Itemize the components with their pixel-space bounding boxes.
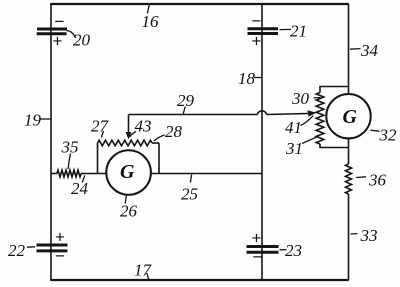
leader 28 (154, 135, 165, 141)
wire bottom bus 17 (50, 279, 349, 281)
wire right branch bottom 33 (348, 194, 350, 280)
wire middle branch 18 (261, 4, 263, 280)
wire pot right flat (152, 142, 159, 144)
arrowhead wiper 43 (126, 132, 132, 140)
wire 29 hump over middle branch (258, 111, 267, 115)
leader 33 (351, 233, 358, 235)
svg-text:+: + (53, 32, 63, 51)
svg-text:35: 35 (61, 138, 79, 157)
leader 31 (302, 136, 319, 143)
svg-text:−: − (252, 12, 262, 31)
svg-text:19: 19 (24, 111, 42, 130)
leader 29 (183, 107, 185, 115)
svg-text:24: 24 (71, 179, 89, 198)
svg-text:G: G (120, 161, 135, 183)
wire bridge left arm (51, 173, 57, 175)
leader 16 (147, 4, 149, 14)
resistor R24 (57, 170, 81, 177)
resistor R36 (346, 164, 352, 194)
arrowhead 41 (308, 110, 317, 116)
svg-text:+: + (55, 228, 65, 247)
svg-text:30: 30 (291, 89, 310, 108)
leader 36 (356, 176, 366, 179)
leader 41 (301, 116, 314, 126)
svg-text:+: + (252, 32, 262, 51)
svg-text:−: − (55, 247, 65, 266)
svg-text:26: 26 (120, 202, 138, 221)
leader 26 (125, 196, 126, 204)
svg-text:31: 31 (285, 139, 303, 158)
svg-text:41: 41 (285, 118, 302, 137)
svg-text:16: 16 (142, 12, 160, 31)
svg-text:27: 27 (91, 117, 110, 136)
leader 21 (280, 28, 292, 30)
svg-text:23: 23 (285, 241, 302, 260)
wire right branch top 34 (348, 4, 350, 95)
svg-text:22: 22 (8, 241, 26, 260)
svg-text:−: − (55, 12, 65, 31)
leader 43 (130, 132, 136, 137)
svg-text:34: 34 (360, 41, 379, 60)
leader 35 (68, 154, 70, 170)
leader 22 (27, 246, 35, 248)
svg-text:17: 17 (134, 261, 153, 280)
galvanometer G32 (326, 94, 370, 138)
svg-text:36: 36 (368, 171, 387, 190)
leader 19 (41, 118, 51, 120)
leader 17 (147, 273, 149, 280)
svg-text:28: 28 (165, 122, 183, 141)
galvanometer G26 (106, 150, 151, 195)
resistor R30-31 bottom jog (320, 144, 349, 148)
wiper 43 stem (128, 115, 130, 134)
svg-text:29: 29 (177, 91, 195, 110)
svg-text:18: 18 (238, 69, 256, 88)
leader 24 (82, 176, 85, 183)
resistor R30-31 top jog (320, 87, 349, 93)
wire left branch 19 (50, 4, 52, 280)
wire 29 to arrow 41 (267, 114, 309, 115)
potentiometer 27-28 (98, 140, 153, 146)
wire pot left leg (97, 143, 99, 174)
wire pot right leg (158, 143, 160, 174)
svg-text:21: 21 (290, 22, 307, 41)
svg-text:33: 33 (360, 226, 378, 245)
leader 20 (67, 31, 76, 39)
battery 21 (248, 29, 279, 34)
svg-text:20: 20 (73, 31, 91, 50)
svg-text:32: 32 (379, 126, 398, 145)
resistor R30-31 (316, 93, 324, 145)
battery 20 (37, 29, 67, 34)
leader 18 (254, 77, 261, 79)
svg-text:G: G (343, 106, 358, 128)
svg-text:25: 25 (181, 185, 198, 204)
wire G26 to middle branch 25 (151, 173, 262, 175)
leader 23 (280, 249, 287, 251)
svg-text:+: + (252, 229, 262, 248)
leader 27 (101, 131, 103, 138)
svg-text:43: 43 (135, 117, 152, 136)
leader 25 (190, 175, 191, 183)
wire right branch below G32 (348, 139, 350, 165)
wire R24 to G26 (81, 173, 107, 175)
battery 23 (247, 247, 279, 253)
leader 30 (314, 97, 321, 100)
wire 29 horizontal (129, 114, 258, 116)
leader 32 (371, 130, 380, 131)
leader 34 (350, 48, 361, 51)
svg-text:−: − (253, 248, 263, 267)
wire top bus 16 (50, 3, 349, 5)
battery 22 (37, 245, 68, 251)
